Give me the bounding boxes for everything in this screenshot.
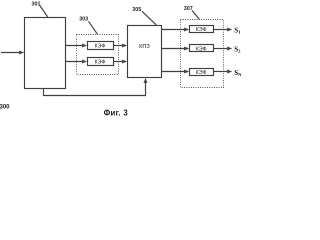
svg-text:305: 305 [132, 7, 141, 13]
svg-text:301: 301 [32, 1, 41, 7]
svg-text:S1: S1 [234, 26, 241, 34]
svg-text:КЭФ: КЭФ [95, 43, 106, 49]
svg-text:S2: S2 [234, 46, 241, 54]
svg-text:307: 307 [184, 6, 193, 12]
svg-text:КПЗ: КПЗ [139, 44, 150, 50]
svg-text:303: 303 [79, 17, 88, 23]
svg-text:КЭФ: КЭФ [196, 70, 207, 76]
svg-text:Фиг. 3: Фиг. 3 [104, 108, 129, 117]
svg-text:SN: SN [234, 69, 242, 77]
svg-text:КЭФ: КЭФ [196, 27, 207, 33]
svg-text:КЭФ: КЭФ [196, 46, 207, 52]
svg-text:300: 300 [0, 104, 10, 110]
svg-text:КЭФ: КЭФ [95, 60, 106, 66]
